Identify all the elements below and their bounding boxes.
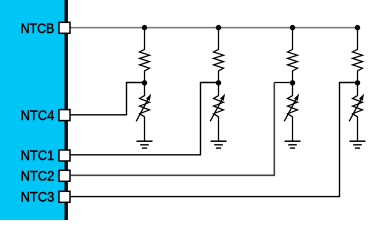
- thermistor column 3 arrow: [284, 94, 299, 122]
- thermistor column 2 arrow: [210, 94, 225, 122]
- ground column 4: [350, 141, 366, 148]
- junction dot column 1 top rail: [142, 25, 147, 30]
- svg-text:NTC3: NTC3: [21, 190, 55, 205]
- pin NTC3: [59, 191, 70, 202]
- svg-text:NTC1: NTC1: [21, 148, 55, 163]
- ground column 3: [285, 141, 301, 148]
- IC block body U1: [0, 0, 65, 220]
- pin NTCB: [59, 22, 70, 33]
- thermistor column 2 zigzag: [214, 83, 224, 141]
- svg-text:NTCB: NTCB: [21, 21, 55, 36]
- thermistor column 4 arrow: [349, 94, 364, 122]
- junction dot column 2 top rail: [216, 25, 221, 30]
- wire NTC2 to column 3 mid node: [71, 83, 275, 176]
- wire: top rail net NTCB: [71, 27, 358, 29]
- pin NTC2: [59, 170, 70, 181]
- resistor column 3 (pull-up): [288, 28, 298, 83]
- ground column 2: [211, 141, 227, 148]
- wire NTC3 to column 4 mid node: [71, 83, 355, 197]
- junction dot column 3 mid node: [290, 80, 295, 85]
- svg-text:NTC4: NTC4: [21, 108, 55, 123]
- thermistor column 4 zigzag: [353, 83, 363, 141]
- pin NTC1: [59, 150, 70, 161]
- junction dot column 4 mid node: [355, 80, 360, 85]
- junction dot column 4 top rail: [355, 25, 360, 30]
- thermistor column 1 arrow: [136, 94, 151, 122]
- junction dot column 3 top rail: [290, 25, 295, 30]
- wire NTC1 to column 2 mid node: [71, 83, 216, 155]
- wire NTC2 stub into column 3 mid node: [274, 82, 290, 84]
- wire NTC4 to column 1 mid node: [71, 83, 142, 115]
- svg-text:NTC2: NTC2: [21, 169, 55, 184]
- resistor column 1 (pull-up): [140, 28, 150, 83]
- resistor column 4 (pull-up): [353, 28, 363, 83]
- pin NTC4: [59, 110, 70, 121]
- thermistor column 1 zigzag: [140, 83, 150, 141]
- junction dot column 2 mid node: [216, 80, 221, 85]
- resistor column 2 (pull-up): [214, 28, 224, 83]
- thermistor column 3 zigzag: [288, 83, 298, 141]
- IC block right border: [65, 0, 68, 220]
- junction dot column 1 mid node: [142, 80, 147, 85]
- ground column 1: [137, 141, 153, 148]
